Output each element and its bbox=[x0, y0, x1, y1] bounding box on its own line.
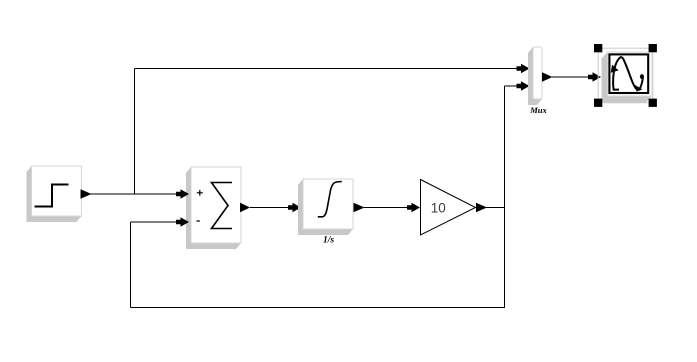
gain block triangle bbox=[421, 180, 476, 236]
sum plus label bbox=[197, 190, 203, 196]
integrator output port arrow bbox=[354, 203, 365, 212]
wire sum to integrator bbox=[250, 207, 295, 209]
sum minus label bbox=[196, 220, 200, 222]
sum block body bbox=[191, 167, 241, 243]
mux block shadow bbox=[528, 47, 542, 105]
feedback wire left vertical bbox=[130, 222, 132, 308]
svg-text:10: 10 bbox=[431, 200, 446, 215]
wire mux to scope bbox=[552, 76, 590, 78]
scope icon frame bbox=[609, 54, 648, 93]
integrator input arrow bbox=[288, 203, 301, 213]
sum block shadow bbox=[186, 167, 241, 249]
feedback wire bottom bbox=[131, 307, 506, 309]
scope selection handle bottom-left bbox=[594, 99, 602, 107]
mux block body bbox=[533, 47, 542, 99]
scope icon curve bbox=[613, 57, 643, 89]
mux input 1 arrow bbox=[517, 64, 530, 74]
scope selection frame bbox=[598, 48, 653, 103]
step source block body bbox=[32, 166, 82, 216]
step icon bbox=[35, 185, 69, 207]
step output port arrow bbox=[81, 189, 92, 198]
gain input arrow bbox=[407, 203, 420, 213]
scope input arrow bbox=[588, 72, 601, 82]
gain output port arrow bbox=[476, 203, 487, 212]
node branch junction bbox=[134, 69, 136, 195]
wire gain to junction bbox=[486, 207, 505, 209]
svg-text:Mux: Mux bbox=[529, 105, 547, 115]
wire junction to mux input 2 bbox=[505, 85, 521, 87]
sum sigma symbol bbox=[212, 183, 233, 229]
scope block shadow bbox=[602, 52, 653, 103]
mux input 2 arrow bbox=[517, 81, 530, 91]
integrator block body bbox=[303, 179, 353, 229]
svg-text:1/s: 1/s bbox=[323, 236, 334, 246]
scope selection handle top-left bbox=[594, 44, 602, 52]
integrator block shadow bbox=[298, 179, 353, 235]
wire integrator to gain bbox=[364, 207, 413, 209]
wire step to sum bbox=[89, 193, 184, 195]
wire branch to mux input 1 bbox=[135, 68, 521, 70]
mux output port arrow bbox=[542, 72, 553, 81]
scope icon arrowhead rising bbox=[611, 65, 619, 73]
sum input 2 arrow bbox=[176, 217, 189, 227]
sum input 1 arrow bbox=[176, 189, 189, 199]
step source block shadow bbox=[27, 166, 82, 222]
scope selection handle bottom-right bbox=[649, 99, 657, 107]
feedback wire to sum minus input bbox=[131, 221, 185, 223]
scope selection handle top-right bbox=[649, 44, 657, 52]
scope block body bbox=[608, 52, 653, 96]
integrator integral sign bbox=[318, 182, 342, 217]
wire junction vertical bbox=[504, 86, 506, 308]
sum output port arrow bbox=[240, 203, 250, 212]
scope icon arrowhead trough bbox=[635, 85, 643, 92]
